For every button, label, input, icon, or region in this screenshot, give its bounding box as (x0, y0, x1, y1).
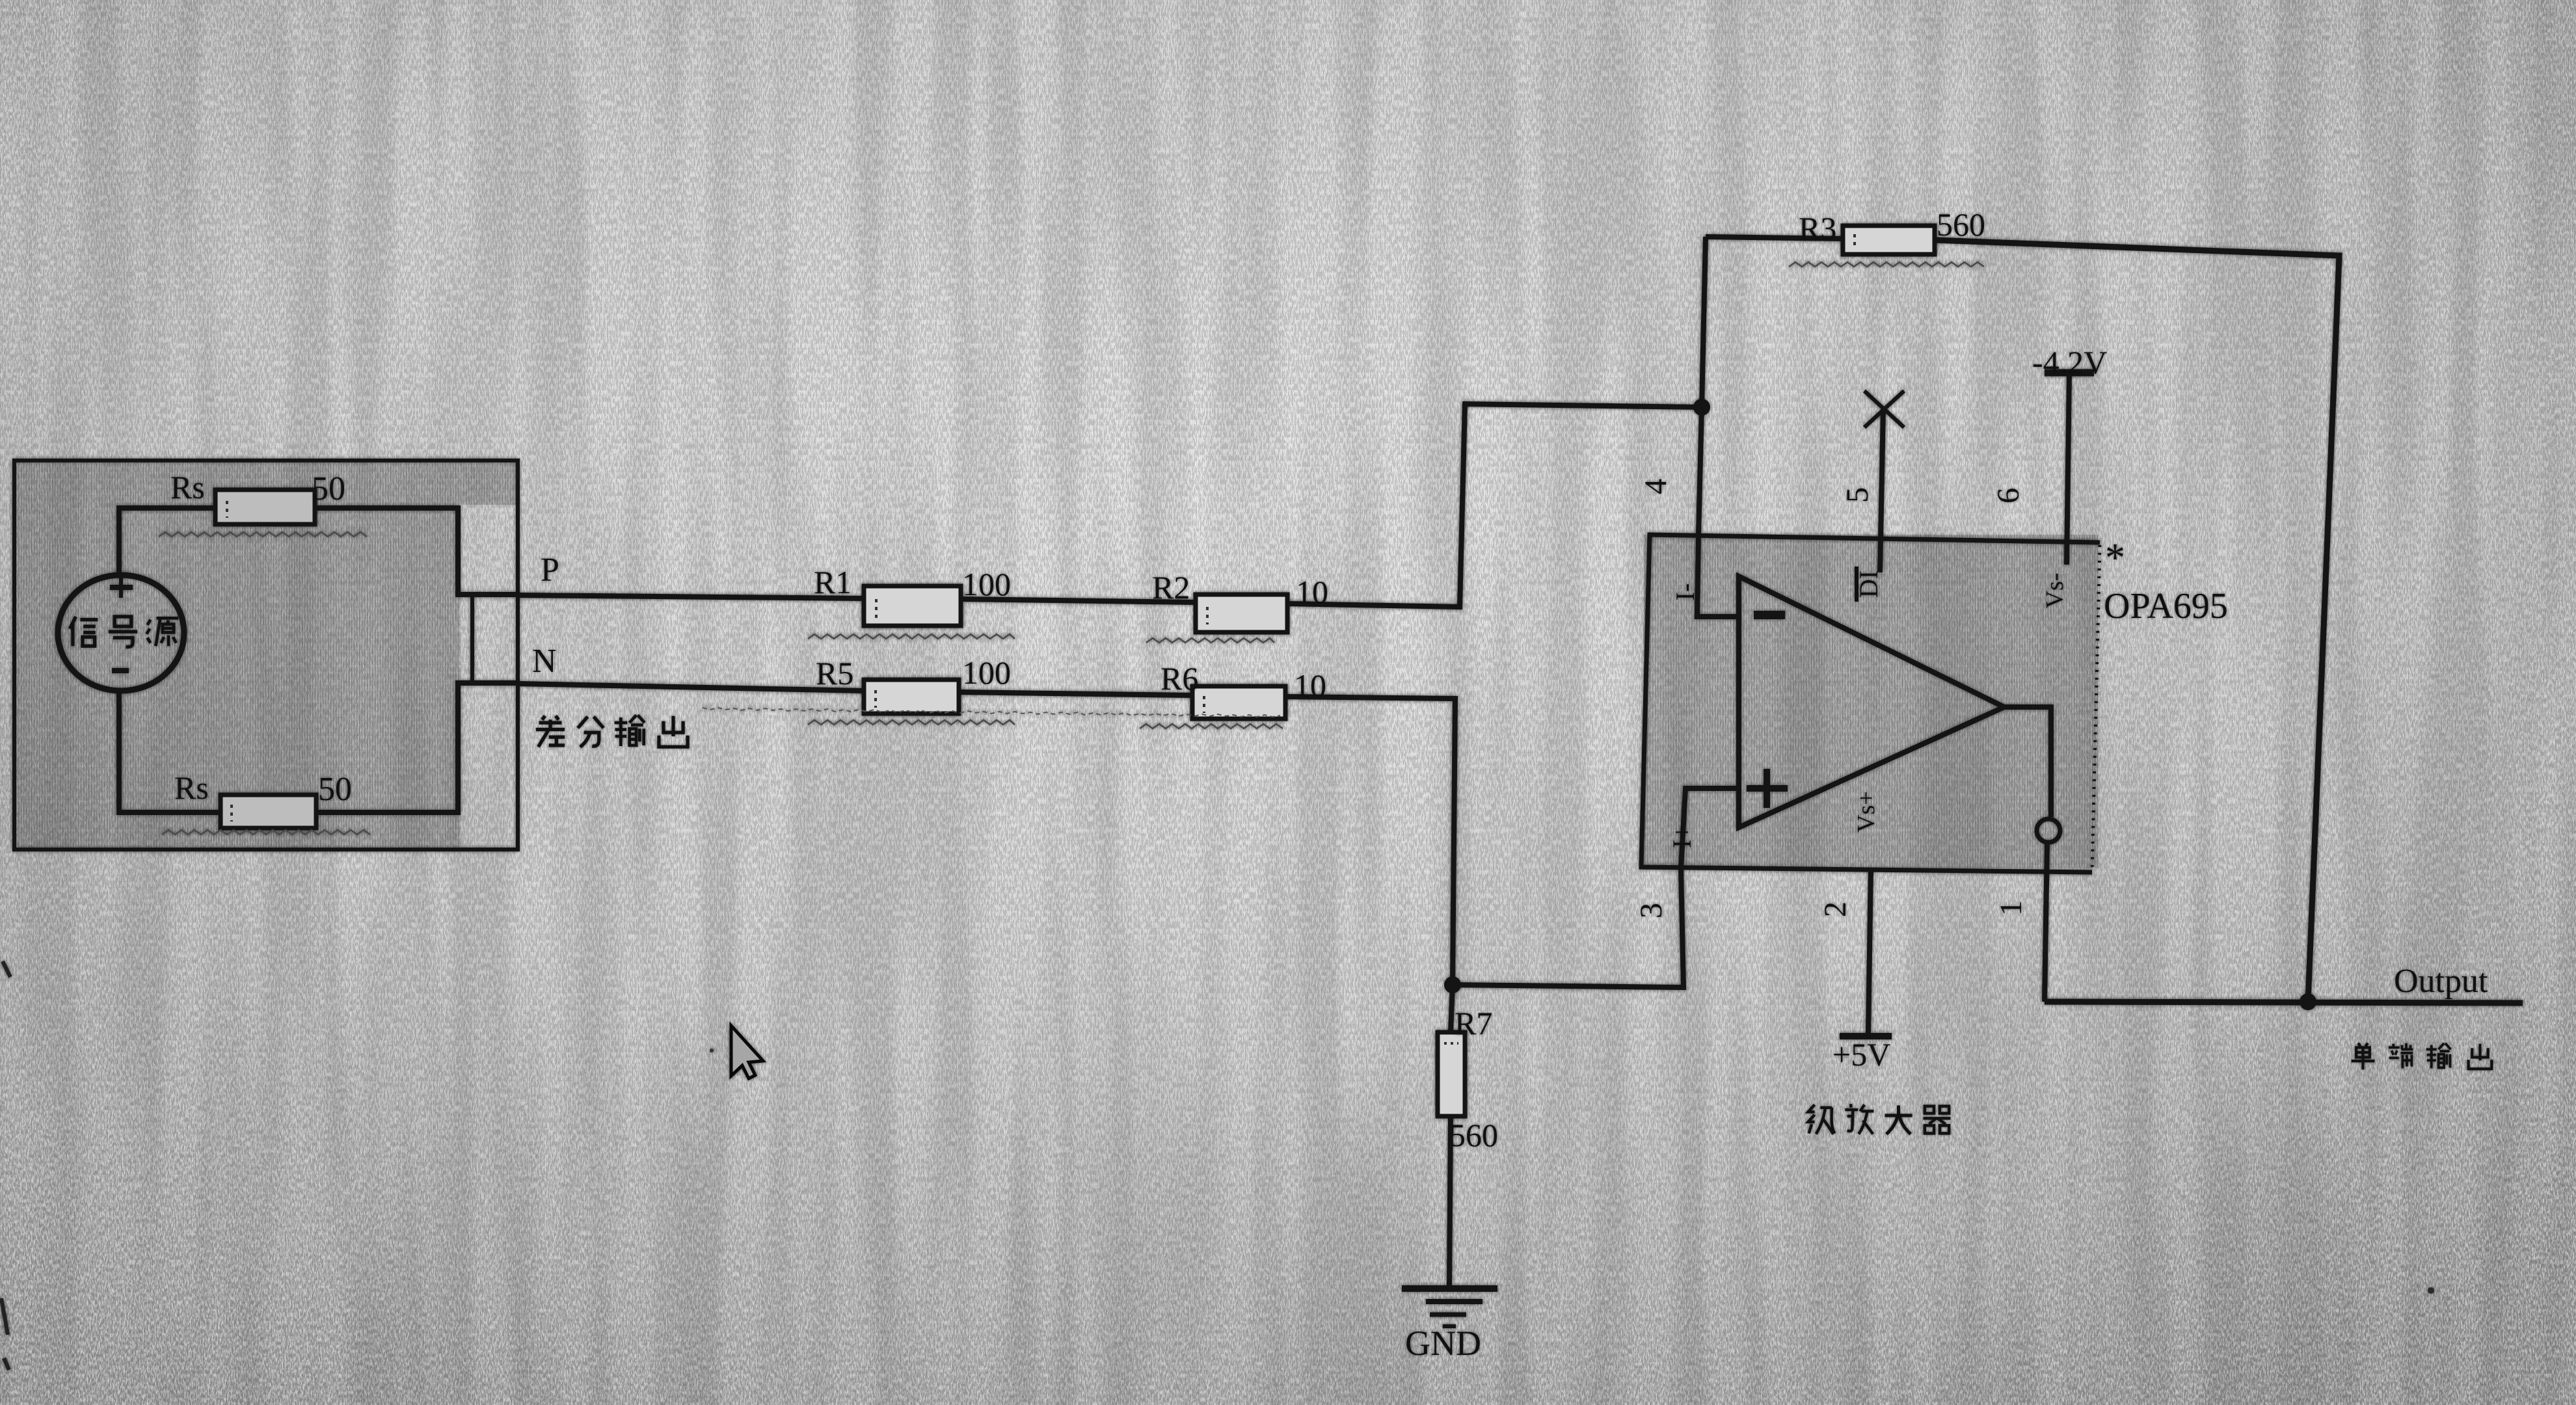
svg-text:R7: R7 (1455, 1005, 1492, 1041)
wire (pin 1 down to output line) (2045, 843, 2047, 1002)
op-amp U1 triangle (1739, 576, 2004, 827)
svg-text:Vs-: Vs- (2041, 573, 2069, 609)
svg-text:1: 1 (1994, 900, 2028, 916)
node (dust speck bottom right) (2428, 1287, 2434, 1294)
svg-text:Rs: Rs (174, 769, 209, 806)
wire (N to lower junction) (1285, 697, 1455, 985)
svg-text:4: 4 (1639, 479, 1673, 494)
squiggle under Rs bottom (162, 830, 370, 835)
wire (119, 691, 221, 812)
svg-text:10: 10 (1296, 574, 1328, 610)
op-amp U1 block body (1641, 535, 2100, 872)
op-amp minus marking (1754, 611, 1785, 619)
svg-text:100: 100 (962, 654, 1011, 691)
wire (315, 508, 518, 595)
resistor R3 (1843, 226, 1935, 254)
wire (119, 508, 215, 575)
squiggle under Rs top (159, 532, 367, 537)
node N wire to R5 (518, 684, 864, 691)
pin 5 no-connect X (1864, 391, 1904, 572)
signal source block outline (14, 461, 518, 850)
svg-text:5: 5 (1840, 487, 1875, 503)
svg-text:OPA695: OPA695 (2104, 586, 2228, 626)
source V1 (signal source circle) (58, 575, 184, 691)
svg-text:3: 3 (1634, 903, 1669, 918)
wire (316, 683, 518, 812)
supply -4.2V rail (2045, 373, 2094, 565)
wire (junction to pin 3) (1453, 868, 1684, 987)
svg-text:560: 560 (1937, 206, 1985, 243)
wire (output line) (2045, 1002, 2523, 1003)
svg-text:N: N (532, 643, 557, 680)
svg-text:R5: R5 (816, 655, 853, 691)
svg-text:I+: I+ (1667, 825, 1697, 848)
svg-text:-4.2V: -4.2V (2032, 344, 2107, 381)
squiggle under R3 (1789, 262, 1984, 267)
squiggle under R1 (808, 634, 1015, 639)
svg-text:R6: R6 (1161, 660, 1198, 697)
wire (pin 4 from junction into box, inverting input stub) (1697, 407, 1739, 617)
svg-text:R3: R3 (1799, 210, 1836, 247)
svg-text:R2: R2 (1152, 569, 1190, 606)
node (junction at inverting input net) (1693, 399, 1710, 416)
resistor R1 (864, 586, 961, 626)
wire (959, 692, 1192, 695)
mouse cursor (731, 1026, 763, 1078)
svg-text:560: 560 (1449, 1117, 1498, 1153)
svg-text:GND: GND (1405, 1324, 1481, 1363)
text 单端输出 (single-ended output) (2352, 1043, 2492, 1069)
supply +5V rail (1840, 1033, 1892, 1039)
wire (net highlight squiggle along N line) (703, 708, 1280, 717)
resistor R6 (1192, 686, 1285, 719)
node P wire to R1 (518, 595, 864, 598)
wire (feedback top + right side down to output) (1935, 240, 2339, 1002)
svg-text:*: * (2105, 536, 2125, 580)
op-amp plus marking (1747, 769, 1788, 808)
svg-text:+5V: +5V (1832, 1036, 1890, 1073)
wire (left-edge photo artifact) (1, 961, 10, 1370)
svg-text:6: 6 (1991, 488, 2026, 503)
text 差分输出 (differential output) (536, 715, 688, 747)
wire (up to R3) (1702, 237, 1706, 407)
svg-text:Output: Output (2394, 963, 2488, 1000)
resistor R5 (864, 680, 959, 714)
wire (1706, 237, 1843, 239)
wire (port edge stub) (470, 595, 474, 683)
text 信号源 (signal source) (70, 617, 178, 647)
squiggle under R2 (1146, 638, 1274, 643)
squiggle under R6 (1140, 724, 1283, 729)
svg-text:100: 100 (962, 566, 1011, 602)
pin name DI with overbar (1854, 567, 1883, 602)
resistor Rs (bottom) (221, 795, 316, 828)
ground (1402, 1289, 1497, 1326)
wire (pin 2 to +5V) (1868, 868, 1871, 1034)
op-amp output O ring (2037, 819, 2060, 842)
resistor Rs (top) (215, 490, 315, 524)
squiggle under R5 (808, 720, 1015, 725)
wire (961, 599, 1196, 602)
svg-text:2: 2 (1818, 902, 1853, 917)
svg-text:50: 50 (312, 470, 345, 507)
wire (pin 3 input stub inside box) (1681, 788, 1739, 868)
node (output junction) (2300, 993, 2316, 1010)
resistor R2 (1196, 595, 1287, 632)
node (junction R7 / pin3 net) (1444, 976, 1461, 993)
text 级放大器 (stage amplifier) (1808, 1104, 1951, 1134)
svg-text:Rs: Rs (170, 469, 205, 505)
svg-text:P: P (541, 552, 559, 589)
svg-text:I-: I- (1670, 583, 1700, 601)
wire (R7 to ground) (1449, 1116, 1451, 1287)
svg-text:Vs+: Vs+ (1853, 791, 1880, 833)
svg-text:10: 10 (1294, 667, 1326, 704)
wire (1287, 404, 1702, 607)
node (dust speck near cursor) (710, 1049, 714, 1052)
svg-text:50: 50 (318, 771, 352, 808)
svg-text:R1: R1 (814, 564, 852, 600)
resistor R7 (1438, 985, 1465, 1116)
wire (output inside op-amp) (2004, 707, 2051, 817)
